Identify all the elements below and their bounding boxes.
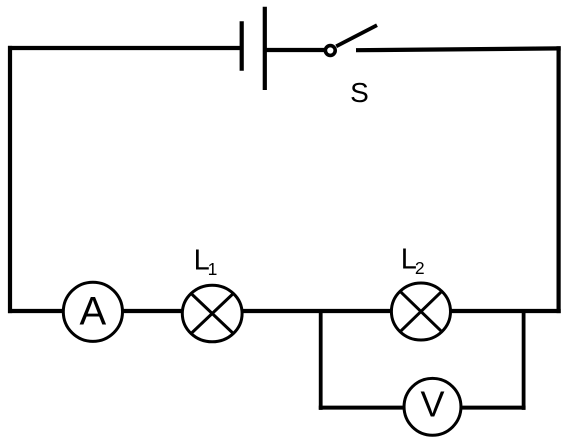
ammeter A1 circle xyxy=(63,282,122,341)
lamp L1 cross stroke 2 xyxy=(191,294,233,334)
switch S pivot circle xyxy=(325,46,335,56)
wire bottom-left to ammeter xyxy=(8,309,64,313)
lamp L1 cross stroke 1 xyxy=(191,294,233,334)
wire voltmeter branch left vertical xyxy=(319,311,323,410)
voltmeter V1 circle xyxy=(404,378,461,435)
switch S lever (open) xyxy=(336,25,377,46)
wire lamp L1 to lamp L2 xyxy=(241,309,392,313)
wire voltmeter branch bottom-right xyxy=(460,406,526,410)
lamp L2 cross stroke 2 xyxy=(400,291,442,331)
lamp L2 cross stroke 1 xyxy=(400,291,442,331)
lamp L2 circle xyxy=(391,283,450,340)
wire switch to top-right corner xyxy=(356,48,561,50)
wire top-left horizontal xyxy=(8,46,242,50)
wire ammeter to lamp L1 xyxy=(122,309,183,313)
svg-text:V: V xyxy=(420,384,444,425)
wire left vertical xyxy=(8,46,12,313)
wire voltmeter branch right vertical xyxy=(522,311,526,410)
svg-text:S: S xyxy=(350,77,369,108)
wire lamp L2 to right corner xyxy=(449,309,561,313)
wire right vertical xyxy=(556,46,560,313)
battery cell B1 negative plate (short) xyxy=(240,21,244,71)
svg-text:2: 2 xyxy=(415,258,425,278)
battery cell B1 positive plate (tall) xyxy=(263,7,267,90)
wire battery to switch xyxy=(265,48,326,52)
svg-text:A: A xyxy=(80,289,107,333)
lamp L1 circle xyxy=(182,285,242,342)
wire voltmeter branch bottom-left xyxy=(319,406,405,410)
svg-text:1: 1 xyxy=(208,259,218,279)
